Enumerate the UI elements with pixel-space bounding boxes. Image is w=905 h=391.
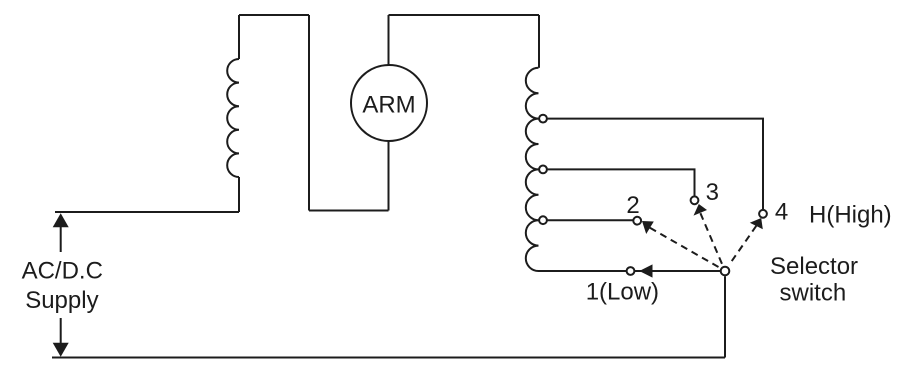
svg-text:3: 3 bbox=[706, 179, 719, 206]
node tap 2 bbox=[633, 217, 641, 225]
wire top right loop bbox=[389, 14, 540, 16]
svg-text:H(High): H(High) bbox=[809, 202, 892, 229]
wire dashed arm to tap4 bbox=[729, 226, 756, 265]
wire supply arrow line upper bbox=[60, 226, 62, 252]
wire field coil bottom lead bbox=[238, 177, 240, 212]
wire pivot down lead bbox=[724, 276, 726, 357]
wire dashed arm to tap2 bbox=[650, 228, 719, 267]
svg-text:ARM: ARM bbox=[362, 91, 415, 118]
arrowhead dashed tap4 bbox=[750, 218, 763, 229]
wire armature top lead bbox=[388, 15, 390, 65]
wire tap3 horizontal bbox=[543, 169, 695, 195]
node tap 4 bbox=[759, 210, 767, 218]
wire supply bottom bbox=[52, 357, 725, 359]
op-amp armature circle ARM bbox=[351, 65, 427, 141]
arrowhead dashed tap3 bbox=[694, 204, 708, 216]
svg-text:Selector: Selector bbox=[770, 253, 858, 280]
node tap on coil upper bbox=[539, 115, 547, 123]
inductor tapped winding bbox=[526, 68, 539, 271]
arrowhead supply down bbox=[53, 343, 69, 357]
svg-text:2: 2 bbox=[626, 192, 639, 219]
wire dashed arm to tap3 bbox=[700, 213, 722, 264]
wire coil bottom to pivot bbox=[539, 270, 721, 272]
arrowhead dashed tap2 bbox=[642, 221, 654, 234]
wire left loop right side bbox=[308, 15, 310, 211]
node tap 1 bbox=[627, 267, 635, 275]
wire bottom U bbox=[309, 210, 389, 212]
arrowhead supply up bbox=[53, 213, 69, 227]
wire armature bottom lead bbox=[388, 141, 390, 211]
wire tap2 horizontal bbox=[543, 219, 633, 221]
wire field coil top lead bbox=[238, 15, 240, 59]
inductor field winding bbox=[227, 59, 239, 177]
wire tap4 horizontal bbox=[543, 119, 763, 209]
svg-text:Supply: Supply bbox=[25, 287, 98, 314]
wire supply arrow line lower bbox=[60, 318, 62, 345]
wire top left loop bbox=[239, 14, 309, 16]
node tap 3 bbox=[691, 196, 699, 204]
arrowhead switch arm tap1 bbox=[639, 264, 652, 277]
svg-text:AC/D.C: AC/D.C bbox=[22, 257, 103, 284]
svg-text:switch: switch bbox=[780, 280, 847, 307]
wire supply top bbox=[55, 211, 239, 213]
node selector pivot bbox=[721, 267, 730, 276]
wire tapped coil top lead bbox=[538, 15, 540, 68]
svg-text:4: 4 bbox=[775, 198, 788, 225]
node tap on coil middle bbox=[539, 166, 547, 174]
node tap on coil lower bbox=[539, 216, 547, 224]
svg-text:1(Low): 1(Low) bbox=[586, 278, 659, 305]
